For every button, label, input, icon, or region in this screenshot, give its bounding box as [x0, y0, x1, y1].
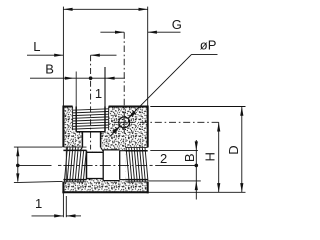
- centerline vertical oP: [123, 32, 125, 111]
- svg-text:G: G: [172, 17, 182, 32]
- cavity walls: [103, 150, 120, 181]
- svg-text:1: 1: [35, 196, 42, 211]
- top port thread lines: [73, 109, 109, 129]
- dimension L: [27, 39, 117, 57]
- right port walls: [125, 151, 147, 180]
- left diameter dimension: [14, 147, 63, 183]
- left port thread lines: [64, 147, 86, 181]
- right port bore white: [125, 147, 149, 182]
- top port chamfer: [80, 147, 104, 151]
- axis left extension: [18, 164, 52, 166]
- dimension G: [100, 17, 182, 34]
- left counterbore white: [87, 152, 104, 178]
- svg-text:øP: øP: [200, 38, 217, 53]
- top port major lines: [73, 107, 109, 131]
- right runout walls: [120, 151, 126, 180]
- center cavity white: [103, 150, 120, 181]
- axis horizontal main: [63, 164, 147, 166]
- oP circle: [113, 112, 135, 134]
- svg-text:B: B: [45, 62, 54, 77]
- oP leader with arrows: [110, 54, 218, 136]
- svg-text:L: L: [33, 39, 40, 54]
- right runout white: [120, 151, 126, 180]
- dimension B top: [30, 62, 125, 107]
- dimension D: [149, 107, 246, 193]
- centerline horizontal oP right: [141, 121, 219, 123]
- left counterbore walls: [87, 150, 104, 181]
- dimension H: [203, 122, 221, 192]
- axis right extension / port 2 leader: [150, 164, 153, 166]
- svg-text:H: H: [203, 152, 218, 161]
- svg-text:2: 2: [160, 151, 167, 166]
- left port entry chamfer line: [65, 147, 67, 182]
- left port bore white: [62, 147, 86, 182]
- top width dimension: [63, 7, 147, 106]
- svg-text:D: D: [226, 145, 241, 154]
- centerline vertical top port: [90, 55, 92, 149]
- top port bore white: [73, 105, 109, 151]
- top port minor walls: [76, 107, 105, 148]
- svg-text:1: 1: [95, 86, 102, 101]
- left port walls: [63, 150, 86, 179]
- body block hatched section: [64, 108, 146, 192]
- dimension B right: [149, 140, 201, 200]
- right port thread lines: [126, 148, 148, 182]
- svg-text:B: B: [182, 153, 197, 162]
- bottom dimension 1: [32, 193, 82, 217]
- block outline: [62, 106, 148, 194]
